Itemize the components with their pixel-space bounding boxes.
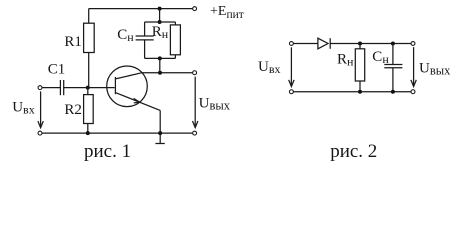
- node emitter ground junction: [158, 131, 162, 135]
- svg-text:Rн: Rн: [337, 51, 354, 68]
- capacitor C1: [60, 80, 63, 95]
- wire diode to output2: [330, 43, 411, 45]
- diode VD1: [318, 38, 330, 49]
- terminal +Eпит: [193, 7, 197, 11]
- svg-text:рис. 1: рис. 1: [84, 141, 131, 162]
- wire input2 to diode: [294, 43, 318, 45]
- terminal output bottom: [193, 131, 197, 135]
- svg-text:R1: R1: [64, 34, 82, 50]
- capacitor Сн2: [384, 65, 402, 68]
- wire base lead: [88, 87, 115, 89]
- wire Rн top lead: [174, 22, 176, 25]
- svg-text:C1: C1: [48, 61, 66, 77]
- wire load block to collector: [159, 58, 161, 72]
- svg-text:рис. 2: рис. 2: [330, 141, 377, 162]
- wire emitter down: [159, 110, 161, 133]
- wire Сн top lead: [144, 22, 146, 36]
- terminal output2 bottom: [411, 90, 415, 94]
- wire Сн bottom lead: [144, 40, 146, 59]
- wire top supply rail: [89, 8, 193, 10]
- node collector junction: [158, 71, 162, 75]
- terminal input top: [38, 86, 42, 90]
- arrow Uвых2: [411, 47, 416, 86]
- arrow Uвх: [38, 91, 43, 127]
- wire R2 to ground rail: [87, 124, 89, 134]
- wire base node to R2: [87, 88, 89, 95]
- node load block bottom: [158, 56, 162, 60]
- wire supply to load block: [159, 9, 161, 22]
- wire Сн2 top lead: [392, 44, 394, 65]
- svg-text:Сн: Сн: [372, 49, 389, 66]
- svg-text:Uвых: Uвых: [199, 96, 231, 113]
- svg-text:+Eпит: +Eпит: [210, 4, 244, 21]
- resistor R2: [84, 95, 94, 124]
- terminal input2 bottom: [289, 90, 293, 94]
- svg-text:Uвх: Uвх: [258, 59, 281, 76]
- node load block top: [158, 20, 162, 24]
- resistor R1: [84, 23, 95, 52]
- svg-text:Rн: Rн: [152, 24, 169, 41]
- wire Rн2 top lead: [359, 44, 361, 49]
- arrow Uвых: [193, 77, 198, 128]
- svg-text:R2: R2: [64, 102, 82, 118]
- transistor Q1: [107, 66, 161, 110]
- wire collector to output: [142, 72, 192, 74]
- node Rн2 top junction: [358, 42, 362, 46]
- wire C1 to base node: [64, 87, 88, 89]
- wire bottom rail 2: [294, 91, 411, 93]
- capacitor Сн: [136, 36, 154, 40]
- wire Rн2 bottom lead: [359, 81, 361, 92]
- wire load block top bar: [145, 21, 176, 23]
- node base junction: [86, 86, 90, 90]
- resistor Rн2: [355, 49, 364, 81]
- node R2 ground junction: [86, 131, 90, 135]
- svg-text:Uвх: Uвх: [12, 100, 35, 117]
- wire Rн bottom lead: [174, 55, 176, 59]
- terminal input bottom: [38, 131, 42, 135]
- wire R1 top lead: [88, 9, 90, 24]
- wire bottom ground rail: [42, 132, 192, 134]
- resistor Rн: [170, 25, 180, 55]
- wire load block bottom bar: [145, 57, 176, 59]
- terminal input2 top: [289, 42, 293, 46]
- terminal output top: [193, 71, 197, 75]
- node junction top rail to load block: [158, 7, 162, 11]
- svg-text:Uвых: Uвых: [419, 60, 451, 77]
- ground: [155, 133, 164, 143]
- wire input to C1: [42, 87, 60, 89]
- node Rн2 bottom junction: [358, 90, 362, 94]
- terminal output2 top: [411, 42, 415, 46]
- node Сн2 bottom junction: [391, 90, 395, 94]
- node Сн2 top junction: [391, 42, 395, 46]
- wire R1 bottom lead to base node: [88, 53, 90, 88]
- svg-text:Сн: Сн: [117, 27, 134, 44]
- arrow Uвх2: [289, 47, 294, 86]
- wire Сн2 bottom lead: [392, 68, 394, 92]
